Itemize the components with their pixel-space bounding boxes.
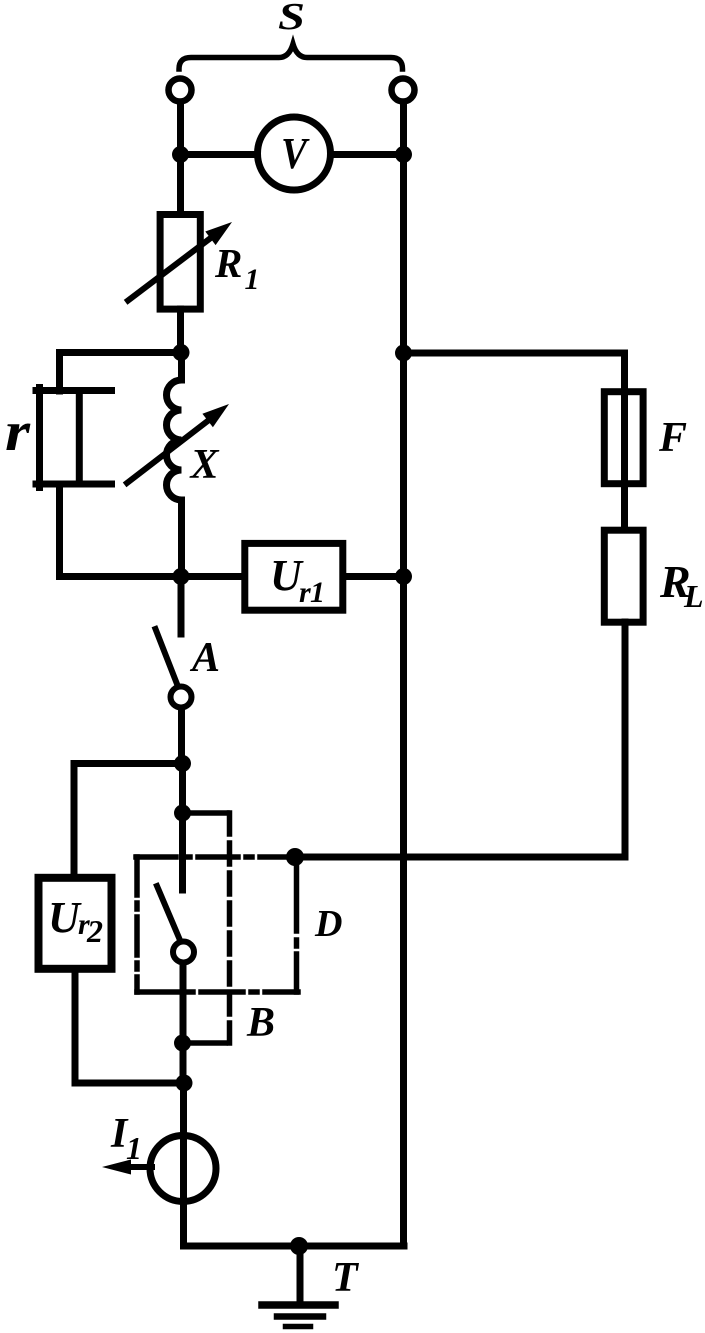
wire node to Ur1 [181,573,244,580]
wire left to r branch [60,349,182,356]
wire RL bottom [622,622,629,857]
node top-right branch [395,345,412,362]
svg-text:R: R [214,240,242,286]
box Ur2 [39,878,112,969]
wire to I1 [180,1083,187,1246]
node D-box / load [286,848,304,866]
switch B contact [173,942,194,963]
arrow I1 [128,1164,152,1170]
svg-text:1: 1 [245,263,260,296]
svg-text:D: D [314,903,342,945]
arrow of R1 [128,237,212,301]
wire down to r [56,353,63,392]
wire through I1 [180,1136,187,1201]
node B-box top [174,805,191,822]
arrow of X [127,420,209,483]
node Ur1/main [395,568,412,585]
wire left terminal down [177,104,184,158]
wire below A [178,710,185,767]
box Ur1 [245,543,343,610]
node B-box bottom [174,1035,191,1052]
wire Ur2 bottom [72,969,79,1083]
switch B lever [157,886,180,939]
wire to node below X [60,573,182,580]
svg-text:S: S [278,0,305,38]
node right top [395,146,412,163]
wire through fuse F [621,353,628,530]
resistor R1 [160,215,200,310]
svg-text:1: 1 [126,1130,142,1166]
main wire down to switch B [179,764,186,891]
node left top [172,146,189,163]
svg-text:r: r [5,401,31,463]
terminal left [169,79,192,102]
svg-text:1: 1 [310,576,325,609]
svg-text:F: F [658,415,687,461]
svg-text:U: U [48,893,82,942]
svg-text:A: A [189,635,220,681]
switch A lever [156,629,178,684]
brace S [179,44,403,69]
node R1/X [173,344,190,361]
dash-dot box D [136,857,298,992]
svg-text:2: 2 [86,913,103,949]
inductor X [167,353,182,577]
dashed box B [189,813,230,1043]
terminal right [392,79,415,102]
node Ur2 top [174,755,191,772]
wire R1 bottom [177,309,184,356]
svg-text:X: X [189,442,220,488]
resistor r [36,388,112,488]
wire left to Ur2 [74,760,183,767]
fuse F [604,392,643,484]
bottom wire [184,1243,405,1250]
wire to F branch [404,350,625,357]
wire to R1 [177,154,184,214]
node below X [173,568,190,585]
wire right terminal down (main right vertical) [400,104,407,1246]
voltmeter V [258,117,331,190]
svg-text:T: T [332,1255,360,1301]
switch A contact [171,687,192,708]
node Ur2 bottom [176,1075,193,1092]
svg-text:L: L [683,578,704,614]
wire Ur1 to main vertical [343,573,404,580]
ground T [297,1246,304,1305]
node ground [290,1237,308,1255]
wire below B [180,965,187,1086]
wire r bottom [56,484,63,577]
current source I1 [150,1136,216,1202]
resistor RL [604,530,643,622]
svg-text:B: B [246,1000,275,1046]
svg-text:V: V [281,129,310,178]
wire voltmeter horizontal [180,151,404,158]
switch A wire top [178,577,185,635]
wire bottom right horizontal [295,854,625,861]
